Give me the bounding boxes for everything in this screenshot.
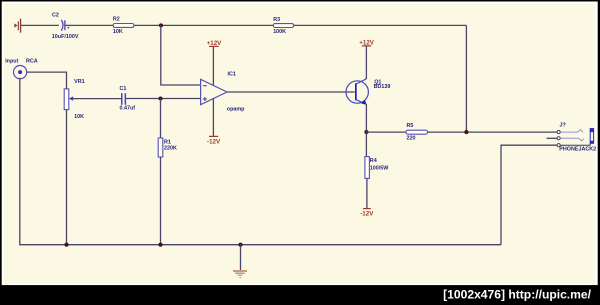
- resistor R1: [158, 138, 163, 157]
- wire Q1 emitter down to junction: [365, 104, 367, 132]
- wire R1 to bus: [160, 157, 162, 245]
- svg-text:+12V: +12V: [207, 40, 222, 47]
- resistor R5: [406, 130, 428, 134]
- wire emitter junction down to R4: [365, 132, 367, 157]
- power -12V R4: [360, 209, 374, 218]
- wire phone jack pin3 riser: [501, 145, 557, 245]
- wire R5 to output node: [428, 131, 557, 133]
- wire VR1 bottom to bus: [66, 110, 68, 245]
- wire pin2 stub: [547, 137, 557, 139]
- svg-text:RCA: RCA: [26, 59, 38, 65]
- svg-text:IC1: IC1: [228, 72, 236, 78]
- connector P1 (input jack, maroon): [14, 19, 21, 33]
- wire op-amp output to Q1 base: [227, 91, 355, 93]
- minus input symbol: [203, 85, 207, 87]
- wire junction down to R1: [160, 99, 162, 139]
- capacitor C2: [61, 20, 70, 32]
- svg-text:Input: Input: [5, 59, 18, 65]
- wire emitter junction to R5: [366, 131, 406, 133]
- svg-text:0.47uf: 0.47uf: [120, 106, 136, 112]
- svg-text:100K: 100K: [273, 29, 286, 35]
- svg-text:R5: R5: [407, 123, 414, 129]
- junction node + input: [158, 96, 162, 100]
- svg-text:220K: 220K: [164, 145, 177, 151]
- junction R1/bus: [158, 243, 162, 247]
- junction emitter node: [364, 130, 368, 134]
- svg-text:100/5W: 100/5W: [370, 166, 389, 172]
- wire C1 to op-amp + input: [126, 98, 201, 100]
- svg-text:R3: R3: [273, 17, 280, 23]
- svg-text:220: 220: [407, 135, 416, 141]
- op-amp IC1: [201, 79, 227, 104]
- svg-text:VR1: VR1: [74, 79, 85, 85]
- wire R4 to -12V: [366, 178, 368, 208]
- svg-text:J?: J?: [560, 123, 566, 129]
- svg-text:C2: C2: [52, 12, 59, 18]
- RCA jack: [14, 66, 27, 79]
- svg-text:-12V: -12V: [207, 138, 221, 145]
- svg-text:[1002x476] http://upic.me/: [1002x476] http://upic.me/: [443, 288, 591, 302]
- svg-text:10K: 10K: [74, 114, 84, 120]
- wire top rail from input connector to right corner: [21, 25, 466, 132]
- watermark bar: [0, 285, 600, 305]
- svg-text:C1: C1: [120, 86, 127, 92]
- svg-text:-12V: -12V: [360, 210, 374, 217]
- capacitor C1: [121, 93, 126, 105]
- svg-text:PHONEJACK2: PHONEJACK2: [559, 146, 596, 152]
- wire RCA down to ground bus: [20, 78, 501, 245]
- svg-text:10K: 10K: [113, 29, 123, 35]
- svg-text:R2: R2: [113, 17, 120, 23]
- junction output node: [464, 130, 468, 134]
- plus input symbol: [203, 97, 207, 101]
- power +12V op-amp: [207, 40, 222, 86]
- ground: [233, 243, 247, 278]
- resistor R2: [113, 24, 134, 28]
- junction top rail / feedback: [159, 23, 163, 27]
- wire feedback: top junction down to - input: [161, 25, 201, 85]
- junction VR1/bus: [64, 243, 68, 247]
- svg-text:R4: R4: [370, 158, 377, 164]
- transistor Q1: [346, 79, 368, 105]
- svg-text:opamp: opamp: [227, 106, 245, 112]
- connector J? phone jack: [557, 123, 594, 147]
- wire RCA to VR1 top: [27, 72, 67, 89]
- power -12V op-amp: [207, 98, 221, 145]
- svg-text:+: +: [67, 26, 70, 32]
- resistor R3: [273, 24, 293, 28]
- power +12V Q1: [359, 39, 374, 79]
- svg-text:BD139: BD139: [374, 84, 391, 90]
- potentiometer VR1: [64, 89, 73, 110]
- resistor R4: [365, 157, 370, 179]
- wire VR1 wiper to C1: [73, 98, 121, 100]
- svg-text:10uF/100V: 10uF/100V: [52, 34, 79, 40]
